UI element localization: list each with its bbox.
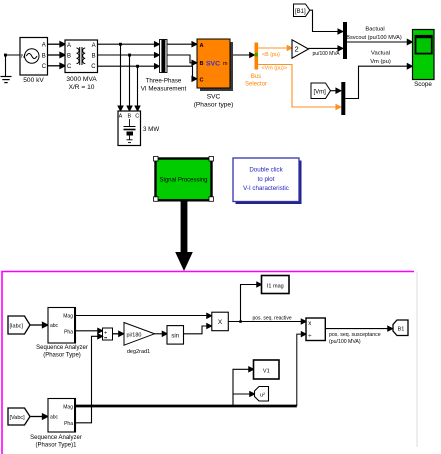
svg-text:[Vm]: [Vm] [314, 89, 327, 95]
wire gain to sin [155, 331, 168, 336]
wire source C to transformer [48, 63, 66, 68]
sin block [167, 326, 184, 345]
svg-text:Vactual: Vactual [371, 51, 390, 57]
svg-text:VI Measurement: VI Measurement [141, 85, 187, 92]
from block [Iabc] [8, 316, 30, 334]
I1 mag block [262, 276, 290, 294]
SVC block (Phasor type) [197, 39, 233, 91]
svg-text:x: x [308, 321, 311, 327]
V1 block [254, 360, 280, 379]
svg-text:A: A [67, 43, 71, 49]
bus selector [255, 43, 259, 70]
voltage source 500 kV [20, 38, 48, 76]
info block: double click to plot V-I characteristic [233, 158, 302, 204]
wire source A to transformer [48, 42, 66, 47]
svg-text:A: A [200, 43, 204, 49]
magenta window border [2, 272, 414, 454]
wire transformer A to VI measurement [98, 42, 160, 47]
svg-text:Selector: Selector [245, 82, 267, 88]
svg-text:500 kV: 500 kV [23, 77, 44, 84]
gain 2 [292, 40, 309, 58]
node at ground wire corner [4, 54, 7, 57]
wire branch to V1 and u2 [233, 367, 255, 406]
svg-text:(pu/100 MVA): (pu/100 MVA) [329, 339, 361, 345]
three-phase VI measurement [160, 40, 168, 73]
svg-text:I1 mag: I1 mag [267, 283, 284, 289]
wire sum to gain deg2rad1 [113, 331, 124, 336]
wire N to ground [6, 55, 21, 76]
svg-text:A: A [92, 43, 96, 49]
svg-text:(Phasor Type)1: (Phasor Type)1 [36, 442, 78, 448]
node on X output wire [239, 320, 242, 323]
svg-text:Vm (pu): Vm (pu) [370, 59, 391, 65]
wire phase2 riser to sum minus [76, 334, 103, 423]
wire bus selector Vm(pu) to mux2 (orange) [258, 65, 341, 110]
wire transformer B to VI measurement [98, 53, 160, 58]
svg-text:C: C [67, 64, 72, 70]
wire analyzer1 Mag to product X [76, 313, 212, 318]
svg-text:C: C [135, 114, 139, 120]
svg-text:Signal Processing: Signal Processing [159, 178, 207, 184]
svg-text:B: B [67, 54, 71, 60]
wire [Vm] to mux2 [331, 88, 341, 93]
wire branch up to I1 mag [241, 282, 262, 321]
wire X output to divide [228, 319, 306, 324]
window right edge [416, 272, 418, 448]
wire bus selector B(pu) to gain [258, 46, 292, 51]
svg-text:SVC: SVC [207, 94, 221, 101]
svg-text:(Phasor Type): (Phasor Type) [43, 353, 81, 359]
wire mux2 to scope [345, 64, 412, 99]
svg-text:N: N [21, 54, 25, 60]
svg-text:V1: V1 [263, 368, 270, 374]
wire [B1] to mux1 [310, 10, 343, 34]
svg-text:A: A [119, 114, 123, 120]
svg-text:3000 MVA: 3000 MVA [66, 76, 97, 83]
svg-text:Three-Phase: Three-Phase [146, 77, 182, 84]
svg-text:C: C [91, 64, 96, 70]
wire sin to product X [184, 324, 212, 334]
product X [212, 312, 229, 331]
wire VI to SVC A [167, 42, 197, 47]
mux2 [341, 82, 345, 115]
wire [Vabc] to analyzer2 [30, 414, 48, 419]
svg-text:deg2rad1: deg2rad1 [127, 349, 150, 355]
svg-text:Double click: Double click [249, 167, 283, 174]
thick wire analyzer2 Mag [76, 405, 297, 408]
from block [B1] [294, 4, 310, 17]
svg-text:pi/180: pi/180 [127, 332, 142, 338]
svg-text:m: m [223, 61, 228, 67]
svg-text:Sequence Analyzer: Sequence Analyzer [36, 345, 88, 351]
svg-text:Pha: Pha [64, 421, 73, 427]
wire A branch down to load [118, 44, 123, 111]
goto block B1 [393, 320, 408, 336]
wire gain to mux1 [309, 46, 343, 51]
from block [Vm] [311, 83, 331, 99]
node junction B branch [128, 54, 131, 57]
svg-text:X/R = 10: X/R = 10 [69, 84, 95, 91]
svg-text:abc: abc [50, 415, 59, 421]
wire transformer C to VI measurement [98, 64, 160, 69]
wire [Iabc] to analyzer1 [30, 322, 48, 327]
svg-text:[Vabc]: [Vabc] [10, 415, 26, 421]
svg-text:Scope: Scope [414, 81, 432, 88]
svg-text:X: X [218, 319, 223, 326]
transformer 3000 MVA [65, 40, 98, 73]
wire SVC m to bus selector [233, 53, 254, 58]
svg-text:[Iabc]: [Iabc] [10, 324, 24, 330]
wire B branch down to load [127, 55, 132, 111]
svg-text:V-I characteristic: V-I characteristic [243, 185, 289, 192]
wire riser to divide input [297, 332, 306, 406]
sum block [103, 328, 113, 340]
svg-text:A: A [42, 43, 46, 49]
svg-text:3 MW: 3 MW [143, 126, 159, 133]
svg-text:2: 2 [295, 45, 299, 54]
svg-text:B: B [200, 61, 204, 67]
wire divide to goto B1 [325, 326, 392, 331]
svg-text:C: C [42, 64, 47, 70]
svg-text:+: + [104, 330, 107, 336]
wire VI to SVC C [167, 66, 197, 81]
svg-text:Pha: Pha [64, 330, 73, 336]
svg-text:[B1]: [B1] [295, 9, 306, 15]
svg-text:<Vm (pu)>: <Vm (pu)> [262, 65, 287, 71]
mux1 [343, 22, 347, 59]
svg-text:pos. seq. susceptance: pos. seq. susceptance [329, 332, 381, 338]
svg-text:Bus: Bus [251, 74, 261, 80]
load 3 MW [118, 111, 141, 146]
svg-text:(Phasor type): (Phasor type) [194, 102, 234, 109]
wire mux1 to scope [347, 39, 412, 44]
sequence analyzer 2 [48, 399, 76, 433]
node junction C branch [136, 65, 139, 68]
svg-text:Bactual: Bactual [365, 26, 384, 32]
svg-text:abc: abc [50, 323, 59, 329]
divide block [306, 318, 325, 341]
wire analyzer1 Pha to sum [76, 328, 103, 333]
signal processing block [154, 157, 214, 202]
svg-text:Mag: Mag [63, 404, 73, 410]
wire C branch down to load [135, 66, 140, 111]
svg-text:sin: sin [171, 333, 179, 339]
from block [Vabc] [8, 408, 30, 425]
svg-text:pu/100 MVA: pu/100 MVA [313, 51, 341, 57]
scope [413, 30, 435, 80]
svg-text:pos. seq. reactive: pos. seq. reactive [253, 316, 292, 322]
sequence analyzer 1 [48, 308, 76, 344]
ground [1, 77, 12, 83]
svg-text:÷: ÷ [308, 333, 312, 340]
svg-text:B1: B1 [398, 327, 405, 333]
svg-text:u²: u² [260, 392, 265, 398]
svg-text:B: B [127, 114, 131, 120]
svg-text:SVC: SVC [206, 60, 220, 67]
goto block u2 [255, 387, 269, 402]
svg-text:to plot: to plot [258, 176, 275, 183]
svg-text:C: C [200, 78, 204, 84]
svg-text:Mag: Mag [63, 314, 73, 320]
svg-text:B: B [42, 53, 46, 59]
svg-text:Sequence Analyzer: Sequence Analyzer [30, 435, 82, 441]
wire source B to transformer [48, 53, 66, 58]
svg-text:<B (pu): <B (pu) [262, 52, 280, 58]
node junction A branch [119, 43, 122, 46]
svg-text:Bsvcout (pu/100 MVA): Bsvcout (pu/100 MVA) [346, 35, 402, 41]
big arrow down [175, 201, 193, 272]
wire VI to SVC B [167, 55, 197, 65]
gain deg2rad1 (pi/180) [124, 323, 155, 346]
svg-text:B: B [92, 54, 96, 60]
